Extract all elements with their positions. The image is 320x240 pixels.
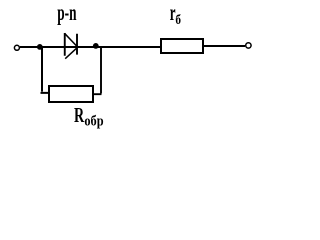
svg-text:R: R [74,103,85,127]
svg-text:б: б [175,13,181,28]
svg-text:p-n: p-n [57,0,76,25]
svg-text:обр: обр [84,113,103,129]
